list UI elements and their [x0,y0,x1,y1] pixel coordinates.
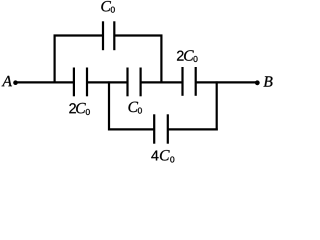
wire: bottom branch horizontal right segment [167,128,217,130]
wire: bottom branch left rail [108,81,110,130]
label 4C0 bottom [151,150,174,162]
capacitor 4C0 bottom: left plate [153,114,155,143]
capacitor 4C0 bottom: right plate [167,114,169,143]
node A terminal dot [13,80,18,85]
capacitor 2C0 left: left plate [73,68,75,97]
wire: main between 2C0 and C0 (junction to bottom branch) [87,81,129,83]
wire: top branch right rail [160,35,162,84]
wire: top branch horizontal left segment [54,34,104,36]
capacitor 2C0 right: right plate [195,67,197,96]
capacitor C0 top: left plate [102,21,104,50]
node A label [2,76,12,86]
capacitor C0 middle: right plate [140,68,142,97]
wire: top branch left rail [53,35,55,84]
capacitor 2C0 left: right plate [86,68,88,97]
wire: main from right 2C0 to node B [195,81,256,83]
wire: top branch horizontal right segment [114,34,163,36]
wire: main between C0 and right 2C0 (junction to top branch) [140,81,183,83]
capacitor C0 middle: left plate [126,68,128,97]
capacitor 2C0 right: left plate [181,67,183,96]
node B terminal dot [255,80,260,85]
label 2C0 right [177,50,197,62]
wire: main from node A to 2C0 left plate [17,81,75,83]
label C0 top [101,1,115,13]
label 2C0 left [69,103,89,115]
label C0 middle [128,102,141,114]
node B label [263,76,272,86]
wire: bottom branch right rail [216,81,218,130]
wire: bottom branch horizontal left segment [108,128,155,130]
capacitor C0 top: right plate [113,21,115,50]
